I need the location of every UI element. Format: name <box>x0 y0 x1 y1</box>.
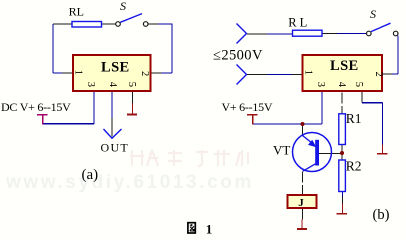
svg-text:VT: VT <box>273 142 290 157</box>
svg-text:5: 5 <box>353 82 364 87</box>
svg-text:(a): (a) <box>82 167 99 183</box>
svg-text:V+ 6--15V: V+ 6--15V <box>222 100 273 114</box>
svg-text:S: S <box>120 0 126 13</box>
svg-text:1: 1 <box>206 222 213 235</box>
svg-text:2: 2 <box>373 72 384 77</box>
svg-text:2: 2 <box>139 71 150 76</box>
svg-text:1: 1 <box>73 70 84 75</box>
svg-text:5: 5 <box>126 82 137 87</box>
svg-text:J: J <box>298 197 304 209</box>
svg-text:S: S <box>370 7 376 21</box>
svg-text:3: 3 <box>85 82 96 87</box>
svg-text:R1: R1 <box>346 111 362 126</box>
svg-text:≤2500V: ≤2500V <box>213 48 263 64</box>
svg-text:RL: RL <box>69 5 84 19</box>
svg-text:R2: R2 <box>346 159 362 174</box>
svg-text:LSE: LSE <box>101 60 130 76</box>
svg-text:LSE: LSE <box>330 58 359 74</box>
svg-text:RL: RL <box>288 15 310 29</box>
svg-text:3: 3 <box>315 82 326 87</box>
svg-text:OUT: OUT <box>101 140 130 154</box>
svg-text:DC V+ 6--15V: DC V+ 6--15V <box>1 100 71 114</box>
svg-text:(b): (b) <box>373 207 390 223</box>
svg-text:www.sydiy.61013.com: www.sydiy.61013.com <box>5 172 254 193</box>
svg-text:4: 4 <box>107 82 118 88</box>
svg-text:4: 4 <box>336 82 347 88</box>
svg-text:1: 1 <box>303 70 314 75</box>
